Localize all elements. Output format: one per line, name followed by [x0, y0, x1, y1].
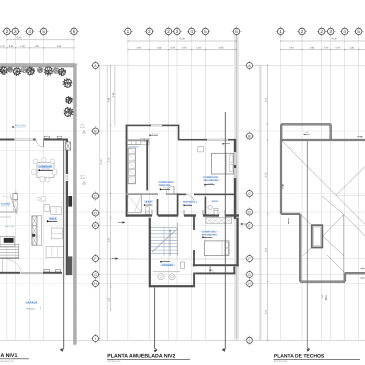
middle plan: top dimensions [128, 40, 237, 42]
svg-text:ESTUDIO: ESTUDIO [162, 264, 173, 267]
svg-text:5: 5 [357, 29, 360, 34]
left wall [126, 125, 128, 217]
roof bump (upper volume) [281, 123, 331, 125]
svg-text:E: E [94, 224, 96, 228]
svg-text:2: 2 [167, 29, 170, 34]
svg-text:N+2.48: N+2.48 [186, 203, 191, 205]
left plan: grid bubbles 2 3 4 5 6 [2, 27, 12, 37]
svg-text:PLANTA DE TECHOS: PLANTA DE TECHOS [274, 353, 325, 359]
svg-text:N.P.T: N.P.T [80, 124, 85, 126]
left plan: NPT level label (patio) [12, 126, 14, 128]
svg-text:DORMITORIO: DORMITORIO [159, 181, 174, 184]
svg-text:1.76: 1.76 [0, 45, 5, 48]
middle plan: left vertical dim line [110, 66, 112, 310]
closet row bedroom2 [206, 218, 232, 224]
grid 6 band [234, 35, 239, 339]
roof plan: top dimensions [281, 40, 365, 42]
sofa long [46, 247, 64, 258]
street line right of left plan [99, 65, 101, 341]
svg-text:PRINCIPAL: PRINCIPAL [159, 184, 171, 187]
left plan: building top wall y=139.5 [0, 139, 15, 141]
roof left edge [280, 140, 282, 214]
hall belt wall y=216.7 [126, 214, 152, 216]
svg-text:3: 3 [176, 29, 179, 34]
roof slope arrows [304, 134, 310, 136]
roof plan: section line [306, 141, 308, 348]
svg-text:5.48: 5.48 [108, 98, 111, 103]
left plan: bottom wall (garage front) [0, 272, 20, 274]
roof main top edge [281, 139, 365, 141]
svg-text:ESCALA 1:50: ESCALA 1:50 [274, 360, 287, 362]
small desk top wall [198, 146, 204, 152]
svg-text:ESCALA 1:50: ESCALA 1:50 [1, 360, 14, 362]
left plan: section line S2 with arrow [63, 140, 65, 349]
estudio label [160, 263, 175, 266]
svg-text:H: H [94, 282, 97, 286]
door arc lower left [2, 259, 21, 272]
middle plan: right letter bubbles [245, 61, 254, 70]
svg-text:A NIV1: A NIV1 [1, 352, 18, 358]
dark hatched strip lower right [67, 256, 72, 275]
estudio/bath block [150, 285, 194, 287]
svg-text:+0.15: +0.15 [80, 126, 85, 128]
svg-text:0.76: 0.76 [324, 47, 329, 50]
roof hip/valley diagonals [282, 141, 337, 196]
svg-text:2: 2 [320, 29, 323, 34]
svg-text:6: 6 [73, 29, 76, 34]
stairs block [149, 218, 151, 287]
hatched corner piece [66, 142, 71, 150]
svg-text:N+2.48: N+2.48 [163, 187, 169, 189]
svg-text:0.76: 0.76 [335, 47, 340, 50]
svg-text:N+2.48: N+2.48 [152, 133, 157, 135]
window [15, 138, 33, 140]
svg-text:2.30: 2.30 [265, 248, 268, 253]
svg-text:2.00: 2.00 [265, 310, 268, 315]
svg-text:S.S.S: S.S.S [212, 200, 218, 203]
svg-text:2.98: 2.98 [57, 45, 62, 48]
svg-text:N.P.T: N.P.T [80, 175, 85, 177]
svg-text:C: C [94, 194, 97, 198]
svg-text:2: 2 [6, 29, 9, 34]
svg-text:0.84: 0.84 [9, 45, 14, 48]
svg-text:Techado 1: Techado 1 [26, 307, 36, 309]
misc small level marks middle plan [150, 134, 152, 136]
svg-text:1: 1 [279, 29, 282, 34]
bookshelf/cabinet with X [32, 216, 42, 246]
roof step [281, 213, 300, 215]
svg-text:SALA: SALA [49, 217, 56, 220]
svg-text:5.08: 5.08 [265, 173, 268, 178]
svg-text:I: I [95, 337, 96, 341]
svg-text:SECUNDARIO: SECUNDARIO [202, 233, 217, 236]
SSP shower [128, 195, 142, 213]
lot-left line + street [106, 65, 108, 340]
principal door arc [166, 186, 174, 194]
svg-text:12%: 12% [322, 295, 324, 298]
svg-text:N.P.T +0.15: N.P.T +0.15 [5, 226, 14, 228]
svg-text:4: 4 [343, 29, 346, 34]
estudio desk + stools [153, 271, 180, 273]
bedroom2 door arc [210, 265, 219, 274]
svg-text:DORMITORIO: DORMITORIO [202, 230, 217, 233]
roof plan: top bubbles 1 2 2 3 4 5 [276, 27, 286, 37]
svg-text:+0.15: +0.15 [80, 177, 85, 179]
svg-text:10.36: 10.36 [100, 159, 102, 165]
top wall upper-left block [126, 125, 179, 127]
svg-text:COMEDOR: COMEDOR [39, 165, 52, 168]
svg-text:1.90: 1.90 [289, 47, 294, 50]
svg-text:S.S.P: S.S.P [146, 201, 152, 204]
svg-text:1.90: 1.90 [20, 45, 25, 48]
svg-text:2: 2 [301, 29, 304, 34]
svg-text:4: 4 [28, 29, 31, 34]
svg-text:0.76: 0.76 [182, 47, 187, 50]
left plan: top dimension lines [7, 39, 74, 41]
svg-text:2.98: 2.98 [219, 47, 224, 50]
svg-text:N.P.T +0.15: N.P.T +0.15 [15, 124, 26, 126]
svg-text:6: 6 [235, 29, 238, 34]
svg-text:3: 3 [329, 29, 332, 34]
upper door leaf [10, 195, 17, 215]
svg-text:1.88: 1.88 [157, 47, 162, 50]
svg-text:1.00: 1.00 [108, 298, 111, 303]
svg-text:A: A [94, 64, 97, 68]
closet strip left [128, 149, 136, 184]
svg-text:2.70: 2.70 [108, 158, 111, 163]
middle plan: left letter bubbles [91, 61, 100, 70]
bedroom2 block walls [193, 216, 195, 231]
left plan: sala furniture [44, 205, 50, 212]
svg-text:B: B [94, 129, 96, 133]
svg-text:COCINA: COCINA [1, 202, 10, 205]
right wall [234, 140, 236, 219]
wall between closet zone and bedroom [146, 140, 148, 190]
SSS left wall [205, 197, 207, 216]
svg-text:5.48: 5.48 [112, 93, 115, 98]
top wall right block [179, 139, 237, 141]
svg-text:B: B [248, 134, 250, 138]
bed 1 [212, 153, 234, 174]
SSP label [144, 200, 153, 203]
left plan: garden plants [0, 67, 8, 75]
svg-text:SECUNDARIO: SECUNDARIO [203, 179, 218, 182]
svg-text:5.08: 5.08 [17, 36, 22, 39]
svg-text:GARAGE: GARAGE [26, 301, 38, 304]
left plan: lot wall top (grid A) [0, 64, 76, 67]
street line bottom [0, 339, 100, 341]
svg-text:5: 5 [204, 29, 207, 34]
svg-text:1.28: 1.28 [349, 47, 354, 50]
svg-text:N.P.T +0.15: N.P.T +0.15 [1, 205, 9, 207]
svg-text:2: 2 [148, 29, 151, 34]
svg-text:PLANTA AMUEBLADA NIV2: PLANTA AMUEBLADA NIV2 [107, 353, 175, 359]
bedroom1 bottom wall / vestibulo top [178, 194, 186, 196]
svg-text:4: 4 [190, 29, 193, 34]
SSP right wall [157, 199, 159, 216]
svg-text:VESTIBULO 1: VESTIBULO 1 [183, 201, 198, 203]
svg-text:N.P.T +0.15: N.P.T +0.15 [42, 168, 50, 170]
left plan: comedor table [37, 163, 54, 178]
roof bottom edge [300, 281, 345, 283]
left plan: building right wall [66, 140, 68, 174]
svg-text:9.08: 9.08 [332, 37, 337, 40]
svg-text:9.08: 9.08 [180, 37, 185, 40]
middle plan: section lines [154, 288, 156, 349]
svg-text:VESTIDOR: VESTIDOR [130, 146, 139, 148]
svg-text:DORMITORIO: DORMITORIO [203, 176, 218, 179]
svg-text:1: 1 [127, 29, 130, 34]
bedroom principal bottom wall [126, 193, 158, 195]
svg-text:N+2.48: N+2.48 [208, 183, 214, 185]
svg-text:2.30: 2.30 [265, 98, 268, 103]
svg-text:1.90: 1.90 [136, 47, 141, 50]
svg-text:G: G [94, 273, 97, 277]
svg-text:1.88: 1.88 [310, 47, 315, 50]
comedor label [38, 165, 53, 168]
sofa 2 [52, 228, 63, 239]
niv1 stairs [0, 243, 19, 245]
vestibulo door arc to bedroom2 zone [186, 194, 194, 202]
middle plan: top bubbles 1 2 2 3 4 5 6 [123, 27, 133, 37]
entry door leaf+arc [36, 140, 44, 148]
island + stove [0, 237, 15, 247]
roof plan: left vertical dim [267, 66, 269, 340]
SSP toilet [145, 207, 149, 213]
left plan: kitchen [0, 192, 16, 213]
small table [41, 197, 46, 202]
door swing marks top [44, 136, 49, 138]
svg-text:ESCALA 1:50: ESCALA 1:50 [108, 360, 121, 362]
svg-text:1.90: 1.90 [34, 45, 39, 48]
svg-text:3: 3 [14, 29, 17, 34]
stairs up arrow [169, 230, 171, 256]
svg-text:1.28: 1.28 [196, 47, 201, 50]
step wall x=178.6 [178, 125, 180, 141]
dark appliance right of wall [68, 196, 72, 207]
svg-text:2.30: 2.30 [108, 238, 111, 243]
left plan: lot wall right [74, 64, 77, 345]
chimney [312, 225, 323, 247]
svg-text:5: 5 [42, 29, 45, 34]
svg-text:12%: 12% [305, 131, 308, 133]
sala label [49, 217, 58, 220]
terrace wall y=273.4 [195, 272, 235, 274]
vestibulo left wall [177, 194, 179, 216]
svg-text:D: D [94, 211, 97, 215]
bed 2 [204, 241, 229, 256]
svg-text:0.76: 0.76 [170, 47, 175, 50]
svg-text:F: F [94, 257, 96, 261]
